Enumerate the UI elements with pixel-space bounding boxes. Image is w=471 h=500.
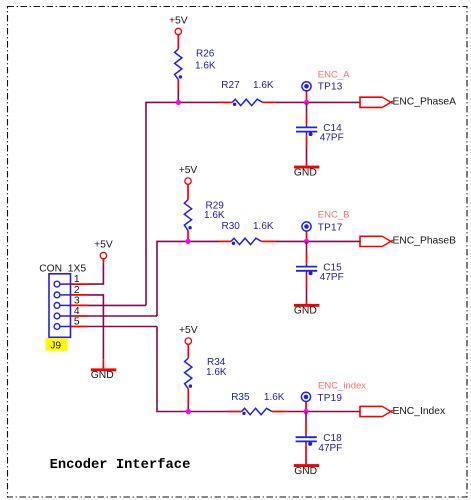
svg-text:+5V: +5V [169,15,188,26]
node ENC_B test point TP17 [302,210,350,242]
resistor R29 [184,200,192,242]
R35 value label [231,392,285,403]
off-page connector ENC_PhaseB [360,235,456,246]
wire J9 pin 4 to channel B [88,315,157,317]
svg-text:2: 2 [74,285,80,296]
J9 pin 1 pad [54,274,88,287]
J9 pin 3 pad [54,296,88,309]
R26 value label [195,49,216,72]
ground GND (channel A) [294,166,320,179]
svg-text:+5V: +5V [179,165,198,176]
svg-text:CON_1X5: CON_1X5 [39,263,86,274]
capacitor C18 [296,412,317,465]
R30 value label [222,221,274,232]
svg-text:TP17: TP17 [318,223,343,234]
junction at R34 / bus index [186,409,191,414]
svg-text:TP19: TP19 [317,393,342,404]
svg-text:Encoder Interface: Encoder Interface [50,457,191,473]
svg-text:+5V: +5V [179,325,198,336]
power +5V (channel B) [179,165,198,200]
J9 pin 2 pad [54,285,88,298]
svg-text:ENC_A: ENC_A [318,69,350,80]
svg-text:GND: GND [294,306,317,317]
svg-text:1: 1 [74,274,80,285]
svg-text:1.6K: 1.6K [206,367,227,378]
svg-text:4: 4 [74,306,80,317]
svg-text:R30: R30 [222,221,241,232]
resistor R30 [231,238,261,245]
wire J9 pin 2 to GND [88,295,103,369]
power +5V (J9 pin 1) [94,239,113,262]
J9 pin 4 pad [54,306,88,319]
svg-text:5: 5 [74,317,80,328]
svg-text:1.6K: 1.6K [264,392,285,403]
svg-text:GND: GND [294,466,317,477]
svg-text:ENC_Index: ENC_Index [393,406,447,417]
wire J9 pin 1 to +5V [88,263,103,285]
C18 value label [318,433,342,454]
svg-text:1.6K: 1.6K [253,80,274,91]
svg-text:1.6K: 1.6K [253,221,274,232]
wire channel index bus [157,327,360,412]
off-page connector ENC_PhaseA [360,96,456,107]
node ENC_A test point TP13 [302,69,350,102]
svg-text:GND: GND [294,167,317,178]
node ENC_index test point TP19 [301,381,366,412]
capacitor C14 [296,102,317,165]
junction at TP19 / bus index [303,409,308,414]
svg-text:ENC_PhaseB: ENC_PhaseB [393,235,457,246]
off-page connector ENC_Index [360,406,446,417]
svg-text:47PF: 47PF [320,133,344,144]
wire J9 pin 5 to channel index [88,326,157,328]
connector J9 CON_1X5 [39,263,86,337]
R27 value label [221,80,274,91]
junction at TP13 / bus A [304,100,309,105]
svg-text:R27: R27 [221,80,240,91]
power +5V (channel A) [169,15,188,49]
svg-text:3: 3 [74,296,80,307]
svg-text:47PF: 47PF [318,443,342,454]
J9 pin 5 pad [54,317,88,330]
wire channel A bus [146,102,360,305]
svg-text:ENC_PhaseA: ENC_PhaseA [393,96,457,107]
svg-text:47PF: 47PF [320,272,344,283]
R29 value label [204,200,225,221]
svg-text:ENC_B: ENC_B [318,210,350,221]
ground GND (channel index) [294,464,319,477]
ground GND (J9 pin 2) [91,368,117,381]
svg-text:J9: J9 [50,341,61,352]
svg-text:1.6K: 1.6K [204,210,225,221]
svg-text:GND: GND [91,370,114,381]
C14 value label [320,123,344,144]
J9 reference designator [46,338,68,352]
svg-text:R35: R35 [231,392,250,403]
svg-text:TP13: TP13 [318,82,343,93]
junction at R26 / bus A [176,100,181,105]
resistor R34 [185,358,192,411]
junction at TP17 / bus B [304,239,309,244]
svg-text:1.6K: 1.6K [195,60,216,71]
R34 value label [206,357,227,378]
resistor R27 [232,99,262,106]
ground GND (channel B) [294,304,320,317]
svg-text:R26: R26 [196,49,215,60]
resistor R35 [242,408,272,415]
power +5V (channel index) [179,325,198,358]
C15 value label [320,262,344,283]
junction at R29 / bus B [185,239,190,244]
wire channel B bus [157,241,360,316]
resistor R26 [175,49,182,103]
wire J9 pin 3 to channel A [88,304,146,306]
svg-text:+5V: +5V [94,239,113,250]
svg-text:ENC_index: ENC_index [318,381,366,392]
capacitor C15 [296,241,317,304]
